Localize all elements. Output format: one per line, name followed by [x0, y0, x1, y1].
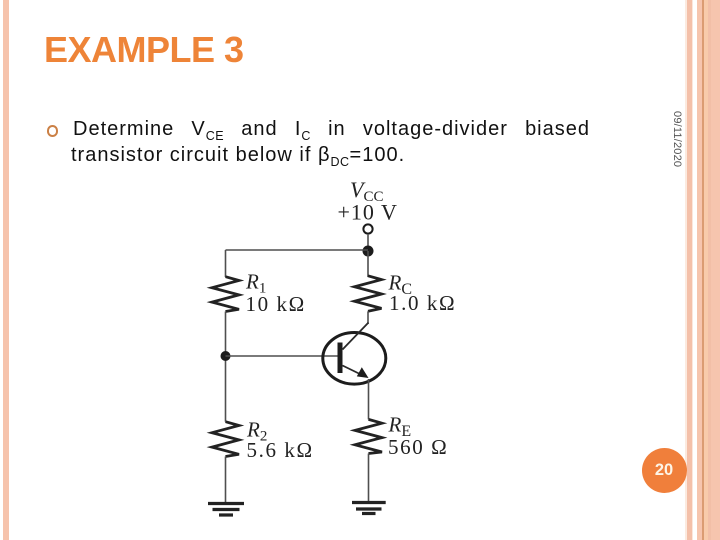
- body text line 1: [73, 116, 590, 149]
- resistor RE: [355, 419, 382, 453]
- collector lead: [343, 323, 369, 350]
- resistor R2: [212, 422, 239, 457]
- wire R2 to ground: [225, 457, 227, 503]
- wire left down to R1: [225, 250, 227, 277]
- svg-text:+10 V: +10 V: [338, 200, 398, 225]
- resistor RC: [355, 276, 382, 312]
- VCC terminal: [363, 224, 372, 233]
- base bar: [338, 343, 343, 374]
- svg-text:5.6 kΩ: 5.6 kΩ: [247, 438, 314, 462]
- svg-text:1.0 kΩ: 1.0 kΩ: [389, 291, 456, 315]
- node A dot: [221, 351, 231, 361]
- wire RE to ground: [368, 454, 370, 502]
- node junction dot: [363, 246, 374, 257]
- svg-text:560 Ω: 560 Ω: [388, 435, 448, 459]
- resistor R1: [212, 277, 239, 312]
- transistor Q1: [323, 333, 386, 385]
- title EXAMPLE 3: [44, 30, 244, 70]
- emitter lead: [343, 366, 364, 376]
- left edge stripe: [3, 0, 9, 540]
- wire base: [226, 355, 339, 357]
- emitter arrowhead: [357, 367, 369, 378]
- page number circle: [642, 448, 687, 493]
- wire terminal to junction: [367, 234, 369, 247]
- bullet ring: [47, 125, 59, 137]
- svg-text:10 kΩ: 10 kΩ: [246, 292, 306, 316]
- body text line 2: [71, 142, 405, 175]
- ground right: [352, 501, 386, 504]
- wire emitter to RE: [368, 379, 370, 419]
- wire R1 to node A: [225, 312, 227, 422]
- wire top horizontal: [226, 249, 369, 251]
- wire RC to collector: [367, 311, 369, 324]
- ground left: [208, 502, 244, 505]
- right stripe band group: [685, 0, 687, 540]
- wire junction to RC: [367, 251, 369, 277]
- date sideways: [671, 111, 683, 167]
